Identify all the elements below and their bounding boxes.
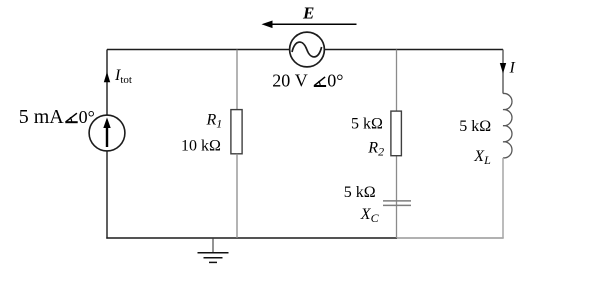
resistor R1 (231, 110, 242, 154)
arrow Itot (104, 72, 110, 82)
svg-text:10 kΩ: 10 kΩ (181, 138, 221, 155)
wire R1 branch top (236, 50, 238, 111)
svg-text:5 kΩ: 5 kΩ (344, 184, 376, 201)
svg-text:5 kΩ: 5 kΩ (459, 118, 491, 135)
label 5 mA angle 0 (19, 106, 95, 128)
wire top (107, 49, 503, 51)
wire left (106, 50, 108, 239)
ground (198, 239, 229, 263)
svg-text:0°: 0° (79, 107, 95, 127)
wire bottom left (106, 237, 397, 239)
svg-text:V: V (295, 71, 308, 91)
svg-text:I: I (509, 60, 516, 77)
arrow I (500, 63, 506, 74)
wire right bottom (502, 158, 504, 238)
wire R1 branch bottom (236, 154, 238, 238)
svg-text:0°: 0° (327, 71, 343, 91)
svg-text:5 kΩ: 5 kΩ (351, 116, 383, 133)
label 20 V angle 0 (272, 71, 343, 91)
arrow E (262, 21, 357, 29)
inductor XL (503, 93, 512, 157)
svg-text:20: 20 (272, 71, 290, 91)
wire bottom right (397, 237, 504, 239)
svg-text:E: E (302, 4, 314, 23)
capacitor XC (383, 201, 411, 206)
svg-text:5 mA: 5 mA (19, 106, 65, 128)
wire right top (502, 50, 504, 94)
wire R2 branch (396, 50, 398, 239)
ac source E (290, 32, 325, 67)
resistor R2 (391, 111, 402, 156)
current source I1 (89, 115, 125, 151)
